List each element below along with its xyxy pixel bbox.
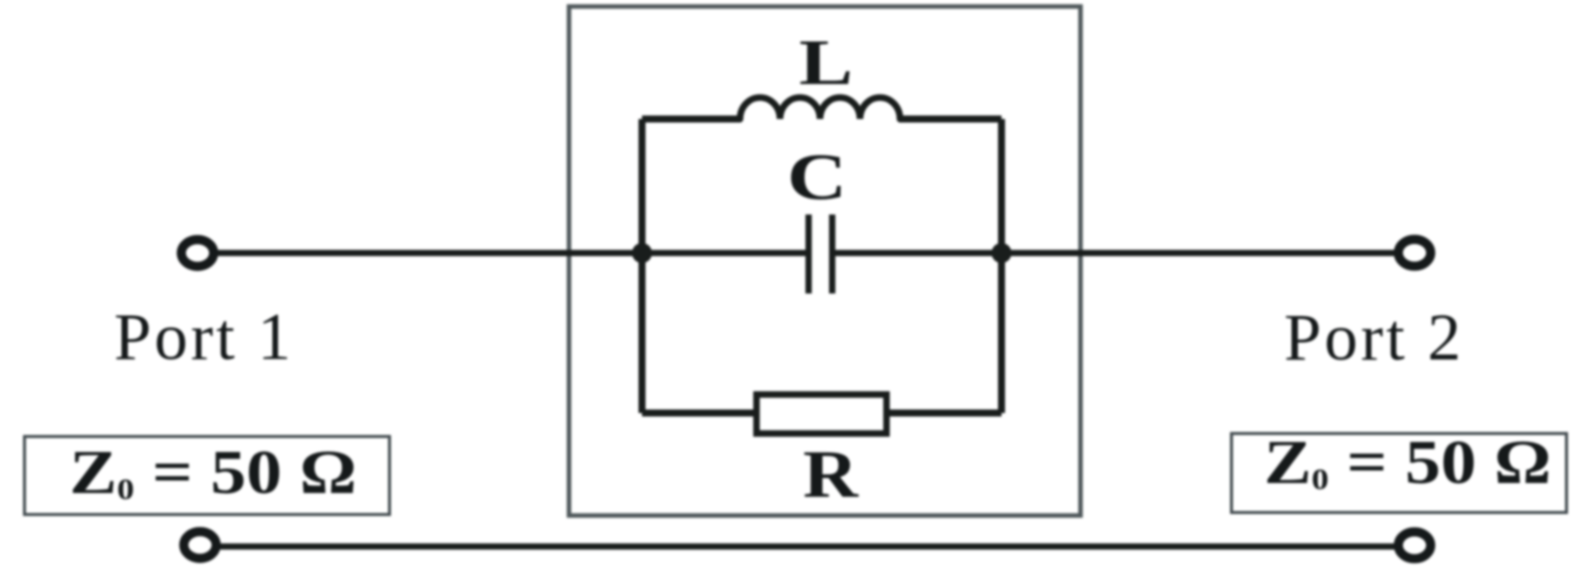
svg-text:L: L	[799, 27, 853, 99]
svg-text:R: R	[803, 436, 859, 512]
svg-text:Z0 = 50 Ω: Z0 = 50 Ω	[70, 438, 357, 507]
svg-text:Z0 = 50 Ω: Z0 = 50 Ω	[1264, 428, 1551, 497]
svg-text:C: C	[787, 141, 847, 214]
svg-text:Port 2: Port 2	[1284, 301, 1464, 375]
svg-text:Port 1: Port 1	[114, 300, 294, 374]
